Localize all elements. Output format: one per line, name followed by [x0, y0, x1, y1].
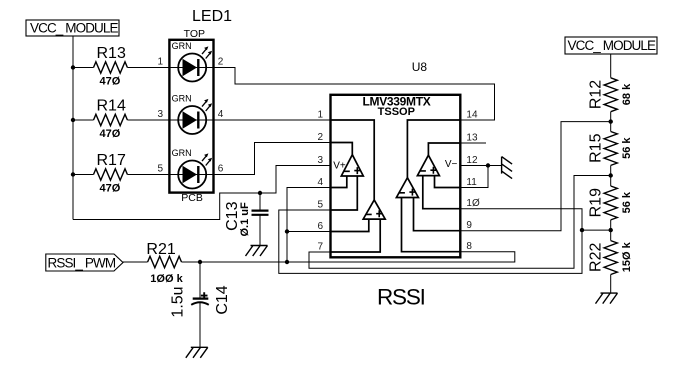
- svg-text:9: 9: [466, 220, 472, 231]
- LED B (middle, GRN): [169, 94, 213, 135]
- wire resistor chain: [610, 54, 612, 293]
- wire U8 pin6 net: [287, 231, 331, 233]
- junction bus row1: [71, 65, 75, 69]
- capacitor C14 (polarized): [170, 262, 232, 347]
- ground at U8 pin12: [502, 157, 512, 179]
- wire U8 pin12 to ground: [460, 165, 501, 167]
- svg-text:1: 1: [157, 57, 163, 68]
- wire pin12 to pin11: [460, 166, 488, 188]
- wire LED pin6 to U8 pin2: [214, 143, 331, 175]
- junction R15/R19: [609, 173, 613, 177]
- svg-text:7: 7: [317, 242, 323, 253]
- wire RSSI line to U8 pin8: [200, 252, 515, 262]
- svg-text:6: 6: [218, 164, 224, 175]
- wire U8 pin4 net: [287, 188, 331, 263]
- svg-text:R14: R14: [97, 98, 126, 115]
- junction pin4 net / RSSI line: [285, 260, 289, 264]
- svg-text:GRN: GRN: [172, 148, 192, 158]
- svg-text:68 k: 68 k: [621, 83, 633, 105]
- svg-text:GRN: GRN: [172, 94, 192, 104]
- svg-text:R21: R21: [146, 241, 175, 258]
- op-amp U8 box: [331, 60, 461, 257]
- junction R21/C14/RSSI: [198, 260, 202, 264]
- wire R12/R15 tap to U8 pin9: [460, 122, 610, 231]
- svg-text:3: 3: [317, 155, 323, 166]
- LED A (top, GRN): [169, 41, 213, 82]
- svg-text:14: 14: [466, 110, 478, 121]
- svg-text:C14: C14: [214, 285, 231, 314]
- svg-text:R22: R22: [588, 243, 605, 272]
- resistor R17: [94, 169, 128, 180]
- svg-text:R17: R17: [97, 152, 126, 169]
- ground at C14: [186, 347, 208, 358]
- svg-text:47Ø: 47Ø: [100, 128, 121, 140]
- svg-text:56 k: 56 k: [621, 137, 633, 159]
- wire U8 pin13 stub: [460, 142, 486, 144]
- svg-text:5: 5: [157, 164, 163, 175]
- svg-text:RSSI: RSSI: [377, 285, 425, 310]
- junction C13 / VCC jog: [258, 191, 262, 195]
- resistor R15: [604, 132, 617, 166]
- svg-text:Ø.1 uF: Ø.1 uF: [239, 202, 251, 237]
- junction bus row2: [71, 118, 75, 122]
- ground at C13: [246, 246, 268, 257]
- U8 internal wires comparator D: [423, 143, 461, 209]
- svg-text:1.5u: 1.5u: [170, 286, 187, 317]
- svg-text:GRN: GRN: [172, 41, 192, 51]
- svg-text:47Ø: 47Ø: [100, 183, 121, 195]
- svg-text:TOP: TOP: [184, 28, 205, 40]
- wire LED pin2 to U8 pin14: [214, 68, 495, 121]
- wire VCC bus left: [72, 36, 74, 220]
- resistor R14: [94, 114, 128, 125]
- wire RSSI flag to R21: [123, 261, 148, 263]
- op-amp U8C: [396, 178, 418, 198]
- svg-text:TSSOP: TSSOP: [378, 106, 415, 118]
- svg-text:1: 1: [317, 110, 323, 121]
- resistor R19: [604, 186, 617, 220]
- ground at chain bottom: [596, 293, 618, 304]
- svg-text:5: 5: [317, 200, 323, 211]
- svg-text:3: 3: [157, 109, 163, 120]
- svg-text:R15: R15: [588, 133, 605, 162]
- op-amp U8A: [333, 155, 363, 176]
- svg-text:6: 6: [317, 221, 323, 232]
- net flag VCC_MODULE (right): [565, 37, 657, 54]
- resistor R21: [148, 256, 182, 267]
- junction pin4/pin6: [285, 229, 289, 233]
- wire R14 row: [73, 119, 169, 121]
- svg-text:U8: U8: [412, 60, 428, 74]
- svg-text:R19: R19: [588, 188, 605, 217]
- svg-text:R13: R13: [97, 45, 126, 62]
- net flag VCC_MODULE (left): [26, 20, 119, 36]
- wire VCC to U8 pin3 (V+): [73, 166, 331, 220]
- svg-text:1Ø: 1Ø: [466, 198, 480, 209]
- svg-text:1ØØ k: 1ØØ k: [150, 273, 183, 285]
- svg-text:15Ø k: 15Ø k: [621, 241, 633, 272]
- LED1 package box: [169, 8, 232, 204]
- svg-text:PCB: PCB: [181, 192, 203, 204]
- svg-text:V+: V+: [333, 160, 346, 171]
- svg-text:LED1: LED1: [192, 8, 232, 25]
- wire U8 pin7 to R15/R19 tap: [309, 176, 611, 269]
- wire R19/R22 tap: [582, 229, 611, 231]
- svg-text:VCC_ MODULE: VCC_ MODULE: [568, 38, 657, 53]
- wire R17 row: [73, 174, 169, 176]
- resistor R22: [604, 241, 617, 275]
- svg-text:V−: V−: [445, 159, 458, 170]
- junction pin12: [486, 163, 490, 167]
- junction pin5 net / R19R22 tap: [580, 228, 584, 232]
- resistor R13: [94, 62, 128, 73]
- svg-text:VCC_ MODULE: VCC_ MODULE: [30, 21, 119, 36]
- svg-text:4: 4: [317, 177, 323, 188]
- LED C (bottom, GRN): [169, 148, 213, 189]
- svg-text:R12: R12: [588, 80, 605, 109]
- junction bus row3: [71, 172, 75, 176]
- U8 internal wires comparator C: [402, 120, 461, 252]
- svg-text:8: 8: [466, 241, 472, 252]
- svg-text:RSSI_ PWM: RSSI_ PWM: [48, 255, 116, 270]
- U8 internal wires comparator A: [331, 143, 358, 211]
- svg-text:11: 11: [466, 177, 477, 188]
- svg-text:13: 13: [466, 133, 478, 144]
- junction R19/R22: [609, 228, 613, 232]
- capacitor C13: [224, 193, 269, 246]
- wire U8 pin5 to pin10 and R19/R22 tap: [279, 209, 582, 274]
- svg-text:56 k: 56 k: [621, 191, 633, 213]
- junction R12/R15: [609, 119, 613, 123]
- op-amp U8B: [363, 200, 385, 219]
- svg-text:4: 4: [218, 109, 224, 120]
- svg-text:47Ø: 47Ø: [100, 76, 121, 88]
- wire R21 to junction: [182, 261, 201, 263]
- svg-text:2: 2: [317, 132, 323, 143]
- svg-text:2: 2: [218, 57, 224, 68]
- wire R13 row: [73, 67, 169, 69]
- op-amp U8D: [417, 155, 457, 175]
- resistor R12: [604, 78, 617, 112]
- svg-text:12: 12: [466, 155, 478, 166]
- U8 internal wires comparator B: [331, 120, 381, 252]
- wire LED pin4 to U8 pin1: [214, 119, 331, 121]
- net flag RSSI_PWM: [46, 254, 123, 271]
